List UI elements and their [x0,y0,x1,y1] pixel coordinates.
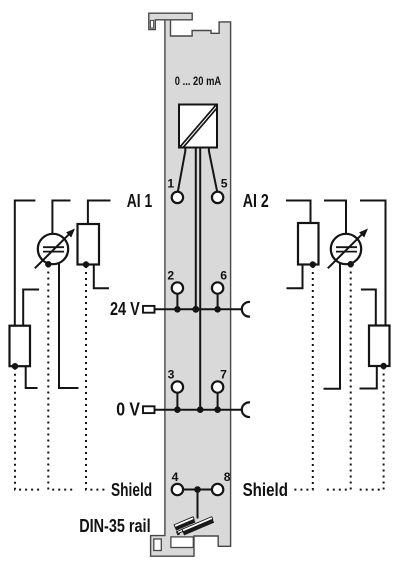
supply resistor R1 (left lower) [10,326,31,367]
wire: U1 lead to terminal 1 [178,148,185,192]
wire: left loop to AI1 (outer) [15,201,36,326]
node: R2 shield tap [83,261,89,267]
terminal 4 [172,470,183,495]
terminal 6 [212,269,227,313]
shield wire (dotted) from R3 [291,266,313,490]
svg-text:AI 2: AI 2 [243,191,269,211]
terminal 7 [212,367,227,413]
wire: right load R3 top [286,201,311,224]
wire: right loop to AI2 (outer) [360,201,386,326]
24V male blade contact [143,306,155,313]
current source G1 [35,229,75,269]
0V female spring contact [242,402,250,417]
shield wire (dotted) from G2 [324,266,351,490]
terminal 8 [212,470,231,495]
svg-text:DIN-35 rail: DIN-35 rail [79,516,150,536]
module body K1 (bus terminal silhouette) [151,20,231,556]
A/D converter U1 [179,105,217,148]
label Shield (left) [111,480,152,500]
wire: shield bus to DIN rail [197,490,199,519]
wire: U1 supply to 24V rail [195,148,197,310]
svg-text:5: 5 [221,177,228,191]
24V power rail [155,306,243,313]
svg-text:1: 1 [167,177,174,191]
svg-text:Shield: Shield [243,480,288,500]
node: G2 shield tap [348,261,354,267]
label AI 2 [243,191,269,211]
wire: U1 return to 0V rail [199,148,201,410]
node: R4 shield tap [380,363,386,369]
wire: R2 bottom to 24V row [94,265,109,289]
wire: 24V row to R4 top [361,290,376,326]
current source G2 [328,229,368,269]
module top latch tab [149,13,192,29]
wire: G2 bottom to 0V row [324,264,341,389]
0V power rail [155,406,243,413]
node: R3 shield tap [310,261,316,267]
shield bus wire 4-8 [184,486,212,493]
module bottom DIN slot B [171,537,193,548]
label DIN-35 rail [79,516,150,536]
wire: G1 bottom to 0V row [59,264,79,389]
module bottom DIN slot A [154,539,162,551]
svg-text:24 V: 24 V [110,299,140,319]
svg-text:2: 2 [167,269,174,283]
node: G1 shield tap [45,261,51,267]
wire: 24V row to R1 top [23,290,39,326]
svg-text:0 V: 0 V [116,400,140,420]
svg-text:Shield: Shield [111,480,152,500]
wire: left load R2 top [88,201,111,225]
shield wire (dotted) from R4 [357,368,384,490]
wire: U1 lead to terminal 5 [209,148,217,192]
svg-text:8: 8 [224,470,231,484]
shield wire (dotted) from R2 [86,266,108,490]
svg-text:AI 1: AI 1 [127,191,152,211]
label 0 V [116,400,140,420]
wire: R3 bottom to 24V row [287,265,303,289]
node: R1 shield tap [12,363,18,369]
wire: R4 bottom to 0V row [360,366,377,389]
label AI 1 [127,191,152,211]
label 0...20 mA [175,74,221,88]
DIN-35 rail symbol [173,510,214,538]
wire: R1 bottom to 0V row [26,366,38,388]
svg-text:3: 3 [168,367,175,381]
load resistor R2 (left upper) [78,224,100,265]
svg-text:7: 7 [220,367,227,381]
supply resistor R4 (right lower) [369,326,390,367]
wire: left source G1 top [52,201,70,234]
load resistor R3 (right upper) [298,223,319,265]
terminal 3 [168,367,183,413]
svg-text:0 ... 20 mA: 0 ... 20 mA [175,74,221,88]
terminal 2 [167,269,183,313]
terminal 1 [167,177,183,203]
shield wire (dotted) from R1 [15,368,40,490]
24V female spring contact [242,302,250,317]
label 24 V [110,299,140,319]
wire: right source G2 top [324,201,346,234]
shield wire (dotted) from G1 [48,266,75,490]
terminal 5 [212,177,228,203]
label Shield (right) [243,480,288,500]
0V male blade contact [143,406,155,413]
svg-text:4: 4 [172,470,179,484]
svg-text:6: 6 [220,269,227,283]
